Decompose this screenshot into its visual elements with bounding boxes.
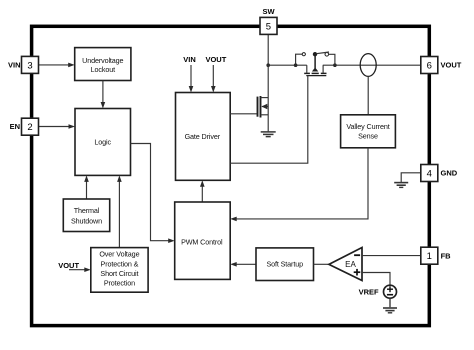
svg-text:4: 4 [427, 168, 432, 179]
wire loop to Valley Current Sense [367, 76, 369, 114]
junction at S1 left [294, 63, 298, 67]
block Soft Startup [256, 248, 314, 281]
svg-text:Soft Startup: Soft Startup [266, 260, 303, 269]
switch S1 contact circle 1 [302, 53, 305, 56]
IC boundary [32, 26, 430, 325]
wire VOUT to OVP [69, 267, 91, 272]
ground (Q1 source) [261, 132, 276, 137]
block U1 Undervoltage Lockout [75, 48, 131, 81]
svg-text:Over Voltage: Over Voltage [99, 250, 139, 259]
wire VREF to ground [389, 298, 391, 307]
current sense loop L1 (ellipse) [360, 54, 376, 77]
block Logic [75, 109, 131, 176]
wire pin1 to EA inverting input [362, 255, 421, 257]
switch S1 gate plate [306, 75, 326, 77]
svg-text:PWM Control: PWM Control [181, 238, 223, 247]
diode D1 (body diode) [312, 56, 319, 74]
svg-text:VIN: VIN [183, 55, 196, 64]
switch S1 contact circle 3 [325, 53, 329, 57]
block Thermal Shutdown [63, 199, 109, 232]
svg-text:6: 6 [427, 60, 432, 71]
svg-text:Thermal: Thermal [74, 206, 100, 215]
svg-text:Lockout: Lockout [91, 65, 115, 74]
wire VOUT to Gate Driver [211, 65, 216, 93]
pin 3 [22, 56, 39, 73]
svg-text:VREF: VREF [359, 287, 379, 296]
pin 1 [421, 247, 438, 264]
wire pin4 to ground [401, 173, 421, 182]
ground (VREF) [383, 308, 397, 313]
junction SW node [266, 63, 270, 67]
svg-text:Shutdown: Shutdown [71, 217, 102, 226]
pin 4 [421, 165, 438, 182]
block Over Voltage / Short Circuit Protection [91, 248, 148, 293]
svg-text:VIN: VIN [8, 61, 21, 70]
svg-text:EA: EA [345, 260, 356, 269]
svg-text:1: 1 [427, 251, 432, 262]
pin 2 [22, 118, 39, 135]
wire pin2 to Logic [39, 124, 76, 129]
block Gate Driver [176, 93, 231, 181]
svg-text:3: 3 [27, 60, 32, 71]
svg-text:Valley Current: Valley Current [346, 122, 389, 131]
pin 5 [260, 17, 277, 34]
svg-text:Undervoltage: Undervoltage [82, 56, 123, 65]
switch S1 riser left [296, 54, 303, 65]
switch S1 lever [316, 52, 329, 54]
svg-text:Gate Driver: Gate Driver [185, 132, 221, 141]
wire OVP to Logic [117, 175, 122, 247]
wire Thermal Shutdown to Logic [84, 175, 89, 199]
wire UVLO to Logic [101, 81, 106, 109]
svg-text:GND: GND [441, 169, 458, 178]
source VREF [384, 285, 397, 298]
svg-text:Logic: Logic [94, 138, 111, 147]
svg-text:FB: FB [441, 251, 452, 260]
svg-text:EN: EN [10, 122, 20, 131]
wire Gate Driver to S1 gate [230, 76, 308, 164]
pin 6 [421, 57, 438, 74]
svg-text:Protection: Protection [104, 279, 135, 288]
transistor Q1 (low-side NMOS) [258, 65, 269, 131]
svg-text:Protection &: Protection & [101, 259, 139, 268]
svg-text:VOUT: VOUT [205, 55, 226, 64]
block Valley Current Sense [341, 115, 396, 148]
wire SW node main rail to pin 6 [268, 64, 307, 66]
svg-text:2: 2 [27, 122, 32, 133]
svg-text:VOUT: VOUT [441, 61, 462, 70]
block PWM Control [175, 202, 231, 279]
svg-text:Short Circuit: Short Circuit [100, 269, 138, 278]
switch S1 pivot circle 2 [313, 53, 316, 56]
svg-text:Sense: Sense [358, 132, 378, 141]
wire Soft Startup to PWM Control [230, 262, 256, 267]
wire pin3 to UVLO [39, 63, 75, 68]
wire Logic to PWM Control [131, 144, 175, 244]
wire circle3 to right leg [329, 54, 335, 65]
ground (pin 4) [394, 183, 408, 188]
wire PWM Control to Gate Driver [200, 180, 205, 202]
svg-text:5: 5 [266, 21, 271, 32]
op-amp EA [329, 248, 362, 281]
svg-text:SW: SW [263, 7, 276, 16]
wire Valley Current Sense to PWM Control [230, 148, 368, 221]
junction at S1 right [333, 63, 337, 67]
wire pin5 down to SW node [267, 35, 269, 66]
wire EA to Soft Startup [314, 263, 330, 265]
wire Gate Driver to Q1 gate [230, 113, 257, 115]
svg-text:VOUT: VOUT [58, 261, 79, 270]
wire VIN to Gate Driver [189, 65, 194, 93]
switch S1 FET legs and contact pads [304, 65, 326, 73]
wire EA non-inverting input to VREF [362, 273, 390, 286]
